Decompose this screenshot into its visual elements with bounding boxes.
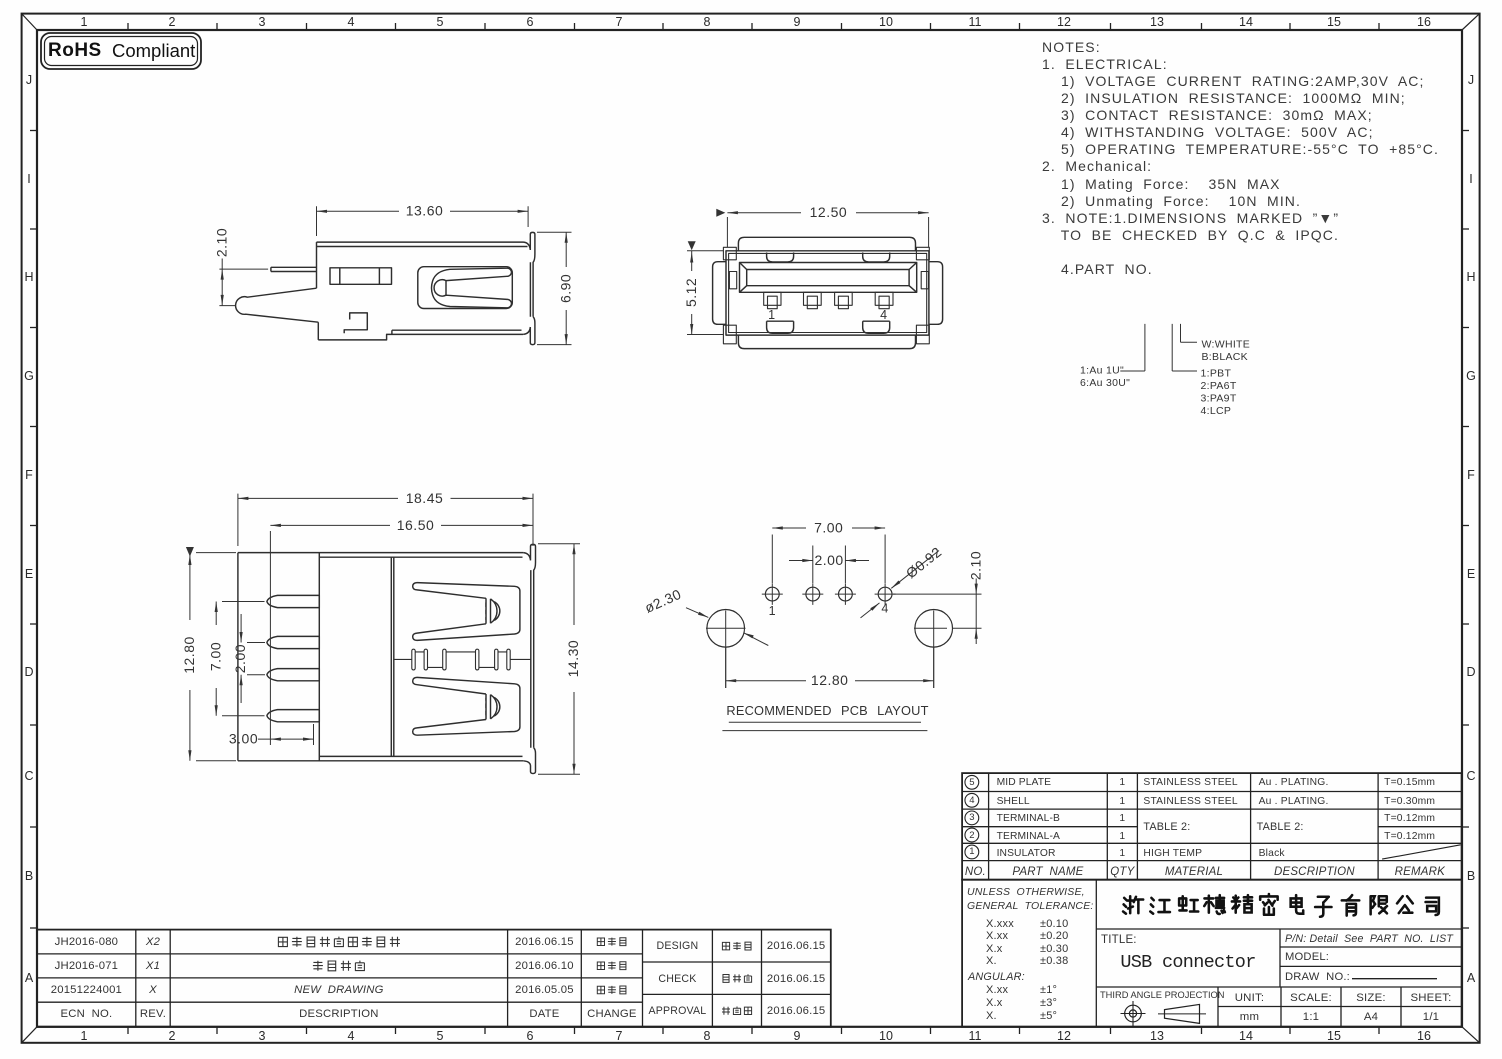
side view: window detail xyxy=(330,268,392,285)
front view: tongue face xyxy=(747,270,909,286)
svg-text:18.45: 18.45 xyxy=(406,490,444,506)
front view: left mount tab xyxy=(713,262,726,325)
pcb dim 0.92 leader xyxy=(861,551,940,618)
top view: housing edges xyxy=(319,553,394,761)
pcb dim 2.00 xyxy=(789,546,869,584)
side view: body left edge xyxy=(316,242,318,288)
front view: top cover xyxy=(738,237,915,251)
svg-text:13.60: 13.60 xyxy=(406,203,444,219)
dim 6.90 xyxy=(537,232,572,344)
svg-text:14.30: 14.30 xyxy=(565,640,581,678)
side view: spring fork xyxy=(432,268,512,308)
svg-text:7.00: 7.00 xyxy=(814,519,843,535)
svg-text:4: 4 xyxy=(881,601,888,615)
svg-text:12.80: 12.80 xyxy=(181,636,197,674)
svg-text:B:BLACK: B:BLACK xyxy=(1202,351,1248,363)
dim 14.30 xyxy=(538,544,580,774)
svg-text:12.80: 12.80 xyxy=(811,672,849,688)
top view: shell seam line xyxy=(394,658,531,660)
front view: right mount tab xyxy=(929,262,943,325)
svg-text:ø2.30: ø2.30 xyxy=(642,586,684,616)
svg-text:3:PA9T: 3:PA9T xyxy=(1201,392,1237,404)
top view: spring forks xyxy=(413,583,520,641)
svg-text:2.00: 2.00 xyxy=(232,644,248,673)
svg-text:6.90: 6.90 xyxy=(557,274,573,303)
front view: shell outer xyxy=(726,251,929,335)
svg-text:7.00: 7.00 xyxy=(207,642,223,671)
svg-text:1: 1 xyxy=(769,604,776,618)
dim 18.45 xyxy=(238,494,533,546)
top view: top flange curl xyxy=(523,544,535,747)
dim 12.80 xyxy=(190,553,236,761)
svg-text:1: 1 xyxy=(768,308,775,322)
pcb: big holes xyxy=(707,610,745,648)
side view: spring cutout xyxy=(418,267,513,309)
svg-text:1:PBT: 1:PBT xyxy=(1201,367,1232,379)
top view: bottom flange curl xyxy=(523,748,535,774)
side view: inner top line xyxy=(317,246,528,248)
dim 13.60 xyxy=(317,206,529,236)
top view: pins 1-4 xyxy=(267,595,319,607)
side view: bottom flange curl xyxy=(523,317,535,345)
svg-text:6:Au 30U": 6:Au 30U" xyxy=(1080,377,1130,389)
side view: bent nose pin xyxy=(236,288,319,340)
notes text xyxy=(1042,39,1439,278)
svg-text:W:WHITE: W:WHITE xyxy=(1202,338,1251,350)
svg-text:16.50: 16.50 xyxy=(397,517,435,533)
dim 7.00 (pins) xyxy=(216,602,264,716)
svg-text:2:PA6T: 2:PA6T xyxy=(1201,380,1237,392)
front view: shell inner xyxy=(729,253,927,332)
front view: corner tabs xyxy=(723,247,736,259)
side view: top flange curl xyxy=(524,232,535,316)
dim 2.00 (pins) xyxy=(241,614,265,703)
dim 16.50 xyxy=(270,525,533,745)
svg-text:12.50: 12.50 xyxy=(810,204,848,220)
side view: solder pin xyxy=(271,267,317,271)
dim 2.10 (side) xyxy=(219,259,268,306)
top view: left edge xyxy=(237,553,239,761)
front view: contacts 1-4 xyxy=(764,292,781,305)
dim 12.50 xyxy=(727,213,928,248)
pcb dim 2.30 leader xyxy=(686,608,768,646)
front view: tongue chamfers xyxy=(740,263,917,293)
front view: bottom cutouts xyxy=(767,321,794,333)
top view: inner top/bottom lines xyxy=(319,557,522,756)
dim 5.12 xyxy=(687,251,723,335)
svg-text:Ø0.92: Ø0.92 xyxy=(903,544,945,582)
svg-text:4: 4 xyxy=(880,308,887,322)
side view: shell outline top xyxy=(317,241,524,243)
RoHS compliant badge xyxy=(38,30,208,75)
part number tree xyxy=(1120,324,1197,371)
pcb dim 12.80 xyxy=(726,648,934,689)
pcb: small holes 1-4 xyxy=(765,587,779,601)
side view: notch detail xyxy=(344,313,367,333)
svg-text:5.12: 5.12 xyxy=(683,278,699,307)
svg-text:2.10: 2.10 xyxy=(967,551,983,580)
side view: bottom edge with step xyxy=(318,330,523,340)
top view: center terminal chain xyxy=(412,649,415,670)
front view: top cutouts xyxy=(767,253,794,263)
front view: bottom cover xyxy=(738,335,915,349)
front view: latch windows xyxy=(729,272,736,289)
svg-text:2.10: 2.10 xyxy=(213,228,229,257)
svg-text:4:LCP: 4:LCP xyxy=(1201,405,1232,417)
pcb dim 7.00 xyxy=(772,528,885,583)
svg-text:RECOMMENDED PCB LAYOUT: RECOMMENDED PCB LAYOUT xyxy=(726,703,928,718)
dim 3.00 xyxy=(258,724,314,745)
front view: tongue outer xyxy=(740,263,917,293)
svg-text:3.00: 3.00 xyxy=(229,730,258,746)
svg-text:1:Au 1U": 1:Au 1U" xyxy=(1080,364,1124,376)
top view: outline top/bottom xyxy=(238,553,523,761)
pcb dim 2.10 xyxy=(893,579,982,645)
svg-text:2.00: 2.00 xyxy=(814,552,843,568)
